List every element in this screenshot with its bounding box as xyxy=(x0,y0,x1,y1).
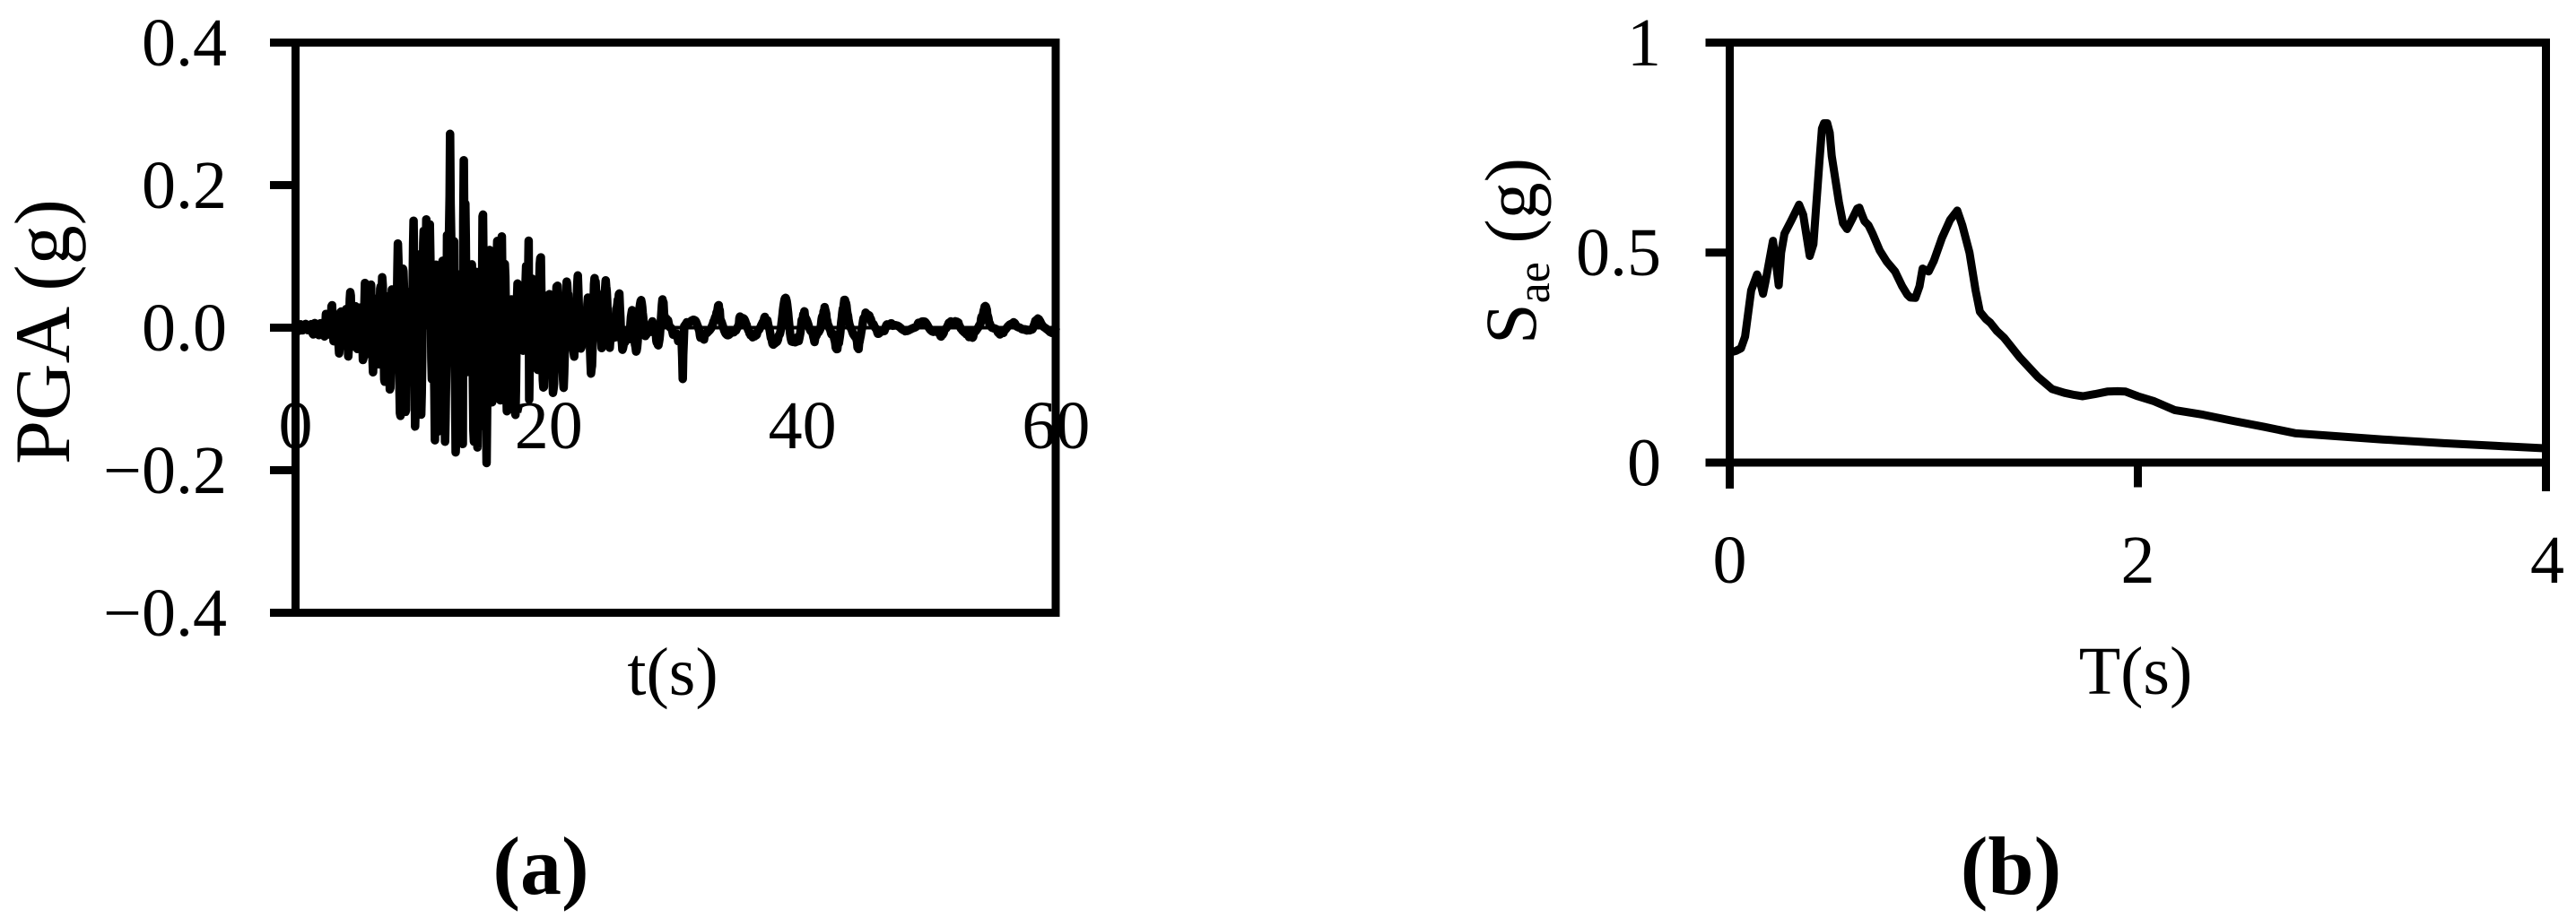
svg-text:T(s): T(s) xyxy=(2079,634,2193,709)
svg-text:60: 60 xyxy=(1022,388,1090,463)
svg-text:20: 20 xyxy=(515,388,583,463)
svg-text:1: 1 xyxy=(1627,5,1661,81)
x tick labels chart b xyxy=(1713,523,2565,598)
svg-text:Sae (g): Sae (g) xyxy=(1470,158,1560,344)
svg-text:0.5: 0.5 xyxy=(1576,215,1661,290)
x-axis zero line chart a xyxy=(296,326,1057,330)
svg-text:t(s): t(s) xyxy=(627,635,718,710)
svg-text:−0.2: −0.2 xyxy=(103,433,227,508)
y tick labels chart a xyxy=(103,5,227,651)
svg-text:4: 4 xyxy=(2530,523,2564,598)
x-axis tick chart b at T=2 xyxy=(2134,463,2142,488)
svg-text:0.2: 0.2 xyxy=(142,148,227,223)
svg-text:2: 2 xyxy=(2121,523,2155,598)
svg-text:40: 40 xyxy=(769,388,837,463)
y-axis ticks chart b xyxy=(1706,43,1735,253)
svg-text:0.0: 0.0 xyxy=(142,290,227,366)
y tick labels chart b xyxy=(1576,5,1661,501)
svg-text:0: 0 xyxy=(1713,523,1747,598)
svg-text:(b): (b) xyxy=(1961,820,2061,912)
svg-text:(a): (a) xyxy=(492,820,588,912)
y-axis ticks chart a xyxy=(270,43,300,613)
response spectrum curve xyxy=(1730,124,2546,449)
plot frame chart b xyxy=(1706,39,2551,491)
svg-text:0: 0 xyxy=(1627,426,1661,501)
svg-text:PGA (g): PGA (g) xyxy=(0,199,87,464)
x tick labels chart a xyxy=(279,388,1091,463)
svg-text:0: 0 xyxy=(279,388,313,463)
plot box chart a xyxy=(296,43,1057,613)
accelerogram waveform xyxy=(296,134,1057,463)
svg-text:−0.4: −0.4 xyxy=(103,576,227,651)
svg-text:0.4: 0.4 xyxy=(142,5,227,81)
